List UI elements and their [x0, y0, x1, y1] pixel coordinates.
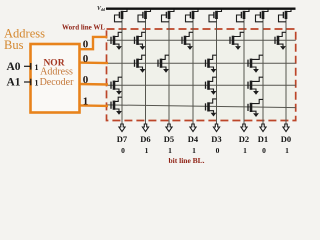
svg-text:0: 0	[216, 146, 220, 155]
load transistor (pull-up) on bit line D7	[115, 10, 128, 22]
ground arrow (source of cell row 1 D2)	[235, 46, 241, 50]
svg-text:Vdd: Vdd	[97, 6, 106, 12]
bit line D4 (vertical wire)	[192, 19, 194, 125]
ground arrow (source of cell row 1 D6)	[140, 46, 146, 50]
bit line D1 (vertical wire)	[262, 19, 264, 125]
svg-text:bit line BL.: bit line BL.	[169, 156, 205, 165]
svg-text:0: 0	[262, 146, 266, 155]
bus width tick A0	[30, 63, 32, 70]
svg-text:1: 1	[243, 146, 247, 155]
NMOS cell transistor row 1 bit D7	[111, 32, 122, 46]
wire: decoder output row 4 to word line (orange)	[79, 104, 108, 107]
NMOS cell transistor row 2 bit D3	[206, 55, 217, 69]
svg-text:1: 1	[35, 78, 39, 87]
ground arrow (source of cell row 1 D4)	[187, 46, 193, 50]
output arrow for bit line D3	[213, 124, 219, 132]
output arrow for bit line D7	[119, 124, 125, 132]
NMOS cell transistor row 1 bit D2	[230, 32, 244, 46]
wire: A0 input to decoder	[24, 65, 31, 67]
svg-text:D1: D1	[258, 134, 268, 144]
NMOS cell transistor row 4 bit D3	[206, 99, 217, 113]
output arrow for bit line D4	[190, 124, 196, 132]
ground arrow (source of cell row 2 D3)	[211, 69, 217, 73]
output arrow for bit line D6	[142, 124, 148, 132]
NMOS cell transistor row 3 bit D1	[248, 77, 263, 91]
svg-text:D2: D2	[239, 134, 249, 144]
svg-text:D7: D7	[117, 134, 128, 144]
load transistor (pull-up) on bit line D3	[209, 10, 222, 22]
bit line D3 (vertical wire)	[216, 19, 218, 125]
bus width tick A1	[30, 79, 32, 86]
ground arrow (source of cell row 2 D1)	[253, 69, 259, 73]
svg-text:A1: A1	[7, 77, 21, 89]
svg-text:1: 1	[285, 146, 289, 155]
word line WL0 wire across array (row 1)	[107, 39, 296, 41]
bit line D5 (vertical wire)	[168, 19, 170, 125]
svg-text:D4: D4	[188, 134, 199, 144]
word line WL3 wire across array (row 4)	[107, 105, 296, 108]
NMOS cell transistor row 3 bit D3	[206, 77, 217, 91]
bit line D2 (vertical wire)	[243, 19, 245, 125]
output arrow for bit line D5	[166, 124, 172, 132]
load transistor (pull-up) on bit line D1	[256, 10, 269, 22]
svg-text:0: 0	[121, 146, 125, 155]
wire: decoder output row 2 to word line (orange)	[79, 61, 108, 64]
svg-text:Address: Address	[40, 66, 73, 77]
wire: decoder output row 1 to word line WL0 (orange, steps up)	[79, 37, 107, 49]
svg-text:A0: A0	[7, 61, 21, 73]
NMOS cell transistor row 3 bit D7	[111, 77, 122, 91]
svg-text:Bus: Bus	[4, 38, 24, 52]
NMOS cell transistor row 1 bit D6	[135, 32, 146, 46]
bit line D7 (vertical wire)	[121, 19, 123, 125]
wire: A1 input to decoder	[24, 81, 31, 83]
svg-text:1: 1	[145, 146, 149, 155]
NMOS cell transistor row 2 bit D6	[135, 55, 146, 69]
output arrow for bit line D1	[260, 124, 266, 132]
svg-text:1: 1	[35, 63, 39, 72]
ground arrow (source of cell row 3 D1)	[253, 91, 259, 95]
svg-text:1: 1	[192, 146, 196, 155]
ground arrow (source of cell row 4 D3)	[211, 113, 217, 117]
svg-text:D6: D6	[140, 134, 150, 144]
ground arrow (source of cell row 4 D1)	[253, 113, 259, 117]
load transistor (pull-up) on bit line D2	[237, 10, 250, 22]
NMOS cell transistor row 2 bit D1	[248, 55, 263, 69]
svg-text:1: 1	[83, 95, 89, 107]
svg-text:Word line WL: Word line WL	[62, 24, 105, 32]
svg-text:D3: D3	[211, 134, 221, 144]
svg-text:D0: D0	[281, 134, 291, 144]
bit line D0 (vertical wire)	[285, 19, 287, 125]
bit line D6 (vertical wire)	[145, 19, 147, 125]
wire: decoder output row 3 to word line (orange)	[79, 83, 108, 86]
svg-text:D5: D5	[164, 134, 174, 144]
output arrow for bit line D0	[283, 124, 289, 132]
VDD power rail	[106, 7, 296, 9]
svg-text:Decoder: Decoder	[40, 77, 75, 88]
word line WL2 wire across array (row 3)	[107, 84, 296, 86]
svg-text:0: 0	[83, 39, 89, 51]
NMOS cell transistor row 4 bit D1	[248, 99, 263, 113]
ground arrow (source of cell row 1 D0)	[280, 46, 286, 50]
ground arrow (source of cell row 3 D7)	[116, 91, 122, 95]
output arrow for bit line D2	[241, 124, 247, 132]
svg-text:1: 1	[168, 146, 172, 155]
load transistor (pull-up) on bit line D5	[162, 10, 175, 22]
ROM array dashed boundary box	[107, 29, 296, 121]
ground arrow (source of cell row 3 D3)	[211, 91, 217, 95]
ground arrow (source of cell row 2 D5)	[163, 69, 169, 73]
svg-text:0: 0	[83, 74, 89, 86]
load transistor (pull-up) on bit line D4	[186, 10, 199, 22]
NMOS cell transistor row 1 bit D4	[182, 32, 193, 46]
load transistor (pull-up) on bit line D0	[279, 10, 292, 22]
NOR address decoder box U1	[31, 44, 80, 113]
NMOS cell transistor row 4 bit D7	[111, 97, 122, 111]
ground arrow (source of cell row 1 D7)	[116, 46, 122, 50]
svg-text:0: 0	[83, 53, 89, 65]
ground arrow (source of cell row 4 D7)	[116, 111, 122, 115]
load transistor (pull-up) on bit line D6	[138, 10, 151, 22]
NMOS cell transistor row 2 bit D5	[158, 55, 169, 69]
word line WL1 wire across array (row 2)	[107, 62, 296, 64]
ground arrow (source of cell row 2 D6)	[140, 69, 146, 73]
NMOS cell transistor row 1 bit D0	[275, 32, 286, 46]
